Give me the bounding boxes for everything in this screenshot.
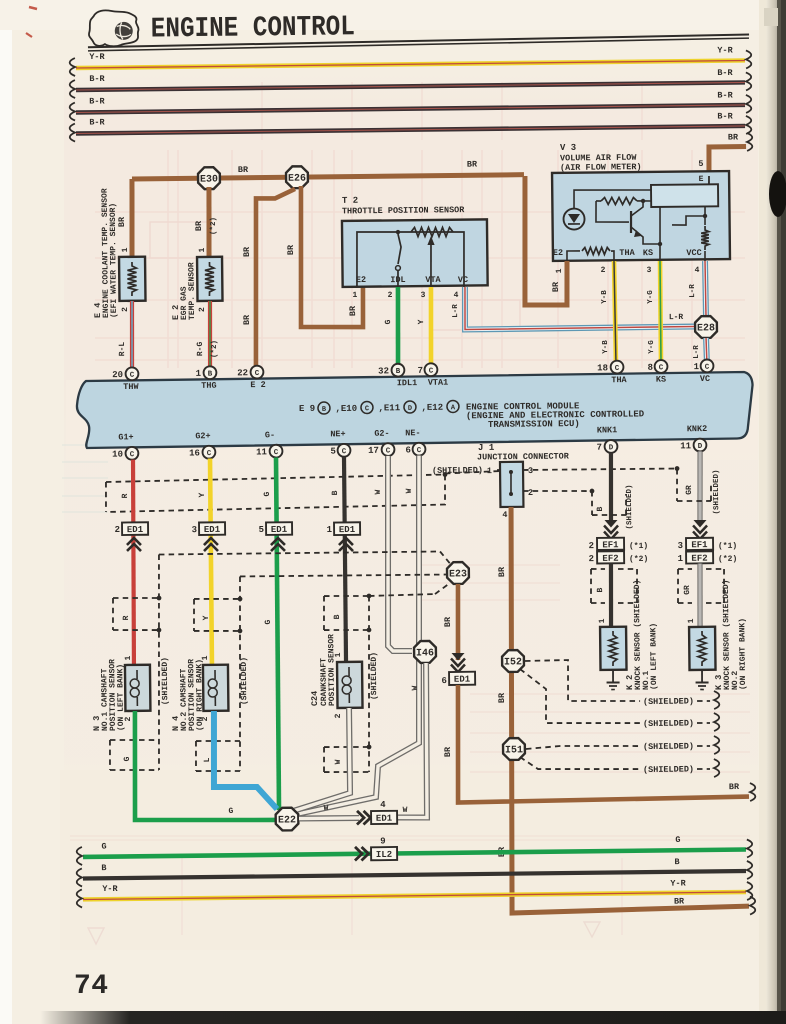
svg-text:I46: I46 (416, 648, 434, 659)
svg-text:BR: BR (497, 566, 507, 577)
connector E28 (695, 316, 717, 338)
svg-text:G: G (101, 842, 106, 852)
svg-text:Y-R: Y-R (89, 52, 105, 62)
svg-text:C: C (130, 372, 135, 380)
svg-text:(SHIELDED): (SHIELDED) (161, 657, 171, 705)
svg-text:G: G (123, 756, 132, 761)
ED1 arrow 5 on green wire (259, 522, 293, 551)
svg-text:Y-R: Y-R (717, 45, 733, 55)
EF1 EF2 boxes KNK2 (677, 537, 737, 564)
V3 pin numbers (555, 265, 700, 277)
wire W I46 down to ED1 4 (395, 663, 427, 818)
terminal NE+ 5(C) (330, 429, 350, 457)
svg-text:THA: THA (619, 248, 635, 258)
bus B-R 3 (70, 110, 752, 141)
ED1 arrow 6 on brown wire (441, 653, 475, 686)
svg-text:2: 2 (115, 525, 121, 535)
wire R-G E2 to THG (196, 301, 220, 368)
svg-text:ED1: ED1 (127, 525, 144, 535)
wire BR J1 pin4 down (493, 504, 749, 913)
V3 vcc resistor (672, 207, 709, 261)
svg-text:L-R: L-R (689, 284, 697, 298)
wire B NE+ to C24 (344, 457, 346, 662)
wire W G2- to I46 (386, 456, 412, 652)
wire BR E30 down to E2 sensor (194, 187, 219, 256)
svg-text:(*2): (*2) (629, 555, 648, 564)
J1 pin2 dashed to KNK1 shield (523, 489, 594, 495)
svg-text:1: 1 (678, 554, 684, 564)
svg-text:5: 5 (259, 525, 265, 535)
svg-text:BR: BR (674, 896, 685, 906)
svg-text:W: W (411, 685, 420, 690)
svg-text:1: 1 (687, 618, 696, 623)
connector I51 (503, 738, 525, 760)
T2 internal switch and potentiometer (355, 227, 468, 288)
bus B bottom (77, 856, 753, 887)
ED1 arrow 4 on white wire (357, 800, 408, 825)
sensor E2 EGR gas temp sensor (170, 247, 222, 320)
svg-text:B-R: B-R (89, 117, 105, 127)
ECU band engine control module (77, 372, 753, 448)
svg-text:B-R: B-R (89, 96, 105, 106)
svg-text:E30: E30 (200, 174, 218, 185)
wire BR E23 down to ED1 6 (443, 584, 459, 660)
svg-text:G2+: G2+ (195, 431, 210, 441)
svg-text:1: 1 (353, 291, 358, 300)
svg-text:BR: BR (117, 216, 127, 227)
wire BR ED1 6 down and right to edge (442, 682, 755, 805)
svg-text:32: 32 (378, 366, 389, 376)
svg-text:B-R: B-R (717, 111, 733, 121)
svg-text:6: 6 (405, 445, 411, 455)
svg-text:VTA1: VTA1 (428, 378, 449, 388)
svg-text:1: 1 (598, 618, 607, 623)
terminal VTA1 7(C) (417, 363, 448, 388)
bus B-R 2 (70, 89, 752, 120)
svg-text:KS: KS (656, 375, 666, 385)
svg-text:NE-: NE- (405, 428, 420, 438)
sensor N3 no.1 camshaft position sensor (91, 655, 151, 731)
svg-text:2: 2 (388, 291, 393, 300)
svg-text:VC: VC (700, 374, 710, 384)
terminal THG 1(B) (196, 366, 217, 391)
svg-text:EF2: EF2 (602, 554, 618, 564)
svg-text:7: 7 (418, 366, 424, 376)
connector E22 (276, 808, 299, 831)
wire BR V3 E2 pin1 U-shape to bus (524, 176, 568, 306)
svg-text:(SHIELDED): (SHIELDED) (432, 465, 483, 476)
svg-text:6: 6 (441, 676, 447, 686)
sensor C24 crankshaft position sensor (309, 634, 362, 719)
svg-text:C: C (255, 370, 260, 378)
svg-text:ED1: ED1 (376, 814, 393, 824)
svg-text:(*2): (*2) (718, 555, 737, 564)
shielded dashed line 2 from I52 (520, 667, 719, 733)
junction connector J1 (477, 442, 571, 520)
svg-text:BR: BR (443, 746, 453, 757)
svg-text:Y-B: Y-B (602, 340, 610, 354)
wire B EF2 to K2 (610, 564, 611, 627)
V3 internal amplifier block (651, 175, 718, 207)
svg-text:IDL1: IDL1 (397, 378, 418, 388)
svg-text:V 3: V 3 (560, 143, 576, 153)
ED1 arrow 1 on black wire (327, 522, 361, 551)
svg-text:BR: BR (728, 132, 739, 142)
svg-text:ED1: ED1 (204, 525, 221, 535)
terminal G2- 17(C) (368, 429, 395, 457)
terminal E2 22(C) (237, 366, 266, 391)
ground K3 (695, 670, 708, 690)
bus Y-R top (70, 45, 752, 76)
svg-text:20: 20 (112, 370, 123, 380)
svg-text:Y-G: Y-G (648, 340, 656, 354)
svg-text:THG: THG (201, 381, 216, 391)
knock sensor K3 (687, 579, 748, 690)
KNK2 small shield dashed box (677, 469, 722, 515)
terminal KS 8(C) (647, 360, 667, 385)
svg-text:L-R: L-R (669, 313, 684, 322)
svg-text:G: G (675, 835, 680, 845)
J1 shielded label and dashes to pin1 (432, 465, 500, 476)
svg-text:1: 1 (693, 362, 699, 372)
svg-text:(*1): (*1) (718, 542, 737, 551)
ED1 arrow 3 on yellow wire (191, 522, 225, 551)
svg-text:C: C (615, 365, 620, 373)
svg-text:G2-: G2- (374, 429, 389, 439)
svg-text:2: 2 (198, 307, 207, 312)
svg-text:KNK2: KNK2 (687, 424, 708, 434)
svg-text:E28: E28 (697, 323, 715, 334)
svg-text:BR: BR (238, 165, 249, 175)
wire BR bus E4/E30/E26 horizontal (132, 159, 524, 179)
svg-text:C24: C24 (310, 691, 320, 706)
svg-text:4: 4 (695, 266, 700, 275)
svg-text:3: 3 (678, 541, 684, 551)
svg-text:G-: G- (265, 430, 275, 440)
svg-text:(ON LEFT BANK): (ON LEFT BANK) (649, 623, 659, 690)
svg-text:2: 2 (121, 307, 130, 312)
svg-text:(SHIELDED): (SHIELDED) (370, 652, 380, 700)
V3 intake temp resistor E2-THA (553, 246, 702, 261)
svg-text:G: G (384, 319, 393, 324)
svg-text:C: C (274, 449, 279, 457)
svg-text:THW: THW (123, 382, 139, 392)
svg-text:,E10: ,E10 (335, 404, 357, 414)
wire R-L E4 to THW (118, 301, 133, 368)
svg-text:R-L: R-L (118, 342, 127, 357)
svg-text:1: 1 (121, 247, 130, 252)
svg-text:BR: BR (194, 220, 204, 231)
svg-text:POSITION SENSOR: POSITION SENSOR (327, 634, 337, 706)
svg-text:TEMP. SENSOR: TEMP. SENSOR (187, 262, 197, 320)
EF1 EF2 boxes KNK1 (588, 537, 648, 564)
svg-text:(SHIELDED): (SHIELDED) (643, 741, 694, 752)
svg-text:4: 4 (454, 291, 459, 300)
sensor N4 no.2 camshaft position sensor (170, 655, 229, 731)
svg-text:(*1): (*1) (629, 542, 648, 551)
wire L-R V3 VCC to E28 (689, 261, 706, 316)
svg-text:B: B (208, 371, 213, 379)
svg-text:(ON LEFT BANK): (ON LEFT BANK) (116, 664, 126, 731)
svg-text:1: 1 (196, 369, 202, 379)
connector E23 (447, 562, 469, 584)
svg-text:B-R: B-R (717, 68, 733, 78)
svg-text:(*2): (*2) (211, 340, 219, 358)
svg-text:E 9: E 9 (299, 404, 315, 414)
T2 pin numbers (353, 290, 459, 301)
svg-text:4: 4 (380, 800, 386, 810)
svg-text:BR: BR (443, 616, 453, 627)
wire L-R T2 VC to E28 (452, 285, 694, 330)
svg-text:B: B (596, 506, 605, 511)
svg-text:ED1: ED1 (454, 675, 471, 685)
terminal NE- 6(C) (405, 428, 425, 456)
svg-text:KNK1: KNK1 (597, 425, 618, 435)
svg-text:B: B (396, 368, 401, 376)
svg-text:C: C (207, 450, 212, 458)
wire R G1+ to N3 (132, 460, 136, 665)
svg-text:B-R: B-R (717, 90, 733, 100)
svg-text:E2: E2 (356, 275, 366, 285)
terminal G- 11(C) (256, 430, 283, 458)
svg-text:3: 3 (421, 291, 426, 300)
svg-text:BR: BR (348, 305, 358, 316)
wire Y G2+ to N4 (210, 458, 213, 664)
svg-text:1: 1 (198, 247, 207, 252)
svg-text:C: C (417, 447, 422, 455)
svg-text:B: B (101, 863, 106, 873)
svg-text:(*2): (*2) (210, 217, 218, 235)
svg-text:Y: Y (198, 492, 207, 497)
wire G T2 IDL to IDL1 (384, 287, 399, 366)
shield dashes N3 column (108, 551, 455, 770)
svg-text:GR: GR (683, 585, 692, 595)
svg-text:2: 2 (589, 554, 595, 564)
svg-text:BR: BR (242, 246, 252, 257)
svg-text:G: G (263, 491, 272, 496)
sensor E4 engine coolant temp sensor (92, 188, 146, 318)
svg-text:,E12: ,E12 (421, 403, 443, 413)
bus Y-R bottom (77, 877, 753, 908)
svg-text:E: E (699, 175, 704, 184)
svg-text:KS: KS (643, 248, 653, 258)
J1 pin3 dashed to KNK2 shield (523, 466, 679, 472)
svg-text:Y-R: Y-R (670, 878, 686, 888)
IL2 arrow 9 on green bus (355, 836, 397, 860)
wire W C24 to E22 (289, 708, 350, 812)
svg-text:C: C (130, 451, 135, 459)
connector I52 (502, 650, 524, 672)
wire Y-G V3 KS to ECU (647, 261, 662, 366)
svg-text:1: 1 (327, 525, 333, 535)
svg-text:ENGINE CONTROL: ENGINE CONTROL (151, 10, 355, 45)
svg-text:(SHIELDED): (SHIELDED) (626, 484, 634, 529)
terminal G1+ 10(C) (112, 432, 139, 460)
svg-text:W: W (334, 759, 343, 764)
svg-text:Y-G: Y-G (647, 290, 655, 304)
engine icon (89, 10, 139, 46)
svg-text:BR: BR (497, 692, 507, 703)
wire G N3 to E22 (134, 709, 276, 821)
svg-text:(SHIELDED): (SHIELDED) (240, 657, 250, 705)
wire L-R E28 to ECU VC (693, 338, 707, 366)
sensor T2 throttle position sensor (342, 194, 488, 287)
knock sensor K2 (598, 579, 659, 690)
page number 74 (74, 971, 109, 1002)
svg-text:E22: E22 (278, 815, 296, 826)
connector E26 (286, 166, 308, 188)
terminal G2+ 16(C) (189, 431, 216, 459)
svg-text:2: 2 (589, 541, 595, 551)
svg-text:22: 22 (237, 368, 248, 378)
bus B-R 1 (70, 67, 752, 98)
svg-text:(EFI WATER TEMP. SENSOR): (EFI WATER TEMP. SENSOR) (109, 203, 119, 318)
svg-text:2: 2 (601, 266, 606, 275)
svg-text:11: 11 (680, 441, 692, 451)
svg-text:B: B (333, 614, 342, 619)
svg-text:E23: E23 (449, 569, 467, 580)
V3 photo diode (563, 189, 651, 229)
svg-text:5: 5 (330, 447, 336, 457)
ED1 arrow 2 on red wire (114, 522, 148, 551)
svg-text:,E11: ,E11 (378, 403, 400, 413)
terminal KNK1 7(D) (596, 425, 617, 453)
wire GR KNK2 down (685, 451, 701, 520)
svg-text:18: 18 (597, 363, 608, 373)
meter V3 volume air flow box (552, 141, 730, 261)
svg-text:C: C (429, 368, 434, 376)
svg-text:3: 3 (192, 525, 198, 535)
svg-text:(ON RIGHT BANK): (ON RIGHT BANK) (195, 659, 205, 731)
svg-text:Y-R: Y-R (102, 884, 118, 894)
svg-text:2: 2 (528, 488, 533, 498)
svg-text:1: 1 (124, 655, 133, 660)
svg-text:16: 16 (189, 448, 200, 458)
svg-text:D: D (609, 444, 614, 452)
wire GR EF2 to K3 (699, 563, 700, 626)
terminal IDL1 32(B) (378, 364, 417, 389)
svg-text:(SHIELDED): (SHIELDED) (643, 764, 694, 775)
svg-text:W: W (405, 488, 414, 493)
wire BR E26 to ECU E2 terminal (241, 189, 297, 369)
svg-text:TRANSMISSION ECU): TRANSMISSION ECU) (488, 419, 580, 430)
shield dashes N4 column (193, 574, 448, 771)
svg-text:Y: Y (417, 319, 426, 324)
terminal KNK2 11(D) (680, 424, 708, 452)
connector I46 (414, 641, 436, 663)
V3 internal resistor and transistor (596, 197, 663, 262)
svg-text:17: 17 (368, 446, 379, 456)
svg-text:10: 10 (112, 450, 123, 460)
svg-text:EF1: EF1 (691, 540, 708, 550)
wire G G- to E22 (262, 457, 280, 810)
svg-text:W: W (374, 489, 383, 494)
svg-text:D: D (698, 443, 703, 451)
connector E30 (198, 167, 220, 189)
svg-text:W: W (403, 806, 408, 815)
terminal THW 20(C) (112, 367, 139, 392)
svg-text:NE+: NE+ (330, 429, 345, 439)
svg-text:74: 74 (74, 971, 109, 1002)
ECU module text (299, 398, 645, 432)
svg-text:IDL: IDL (390, 275, 405, 285)
wire B KNK1 down (610, 453, 611, 520)
svg-text:Y-B: Y-B (601, 290, 609, 304)
wire BR down to E4 (116, 179, 132, 256)
svg-text:R: R (122, 615, 131, 620)
svg-text:VCC: VCC (686, 248, 701, 258)
svg-text:C: C (705, 364, 710, 372)
svg-text:BR: BR (242, 314, 252, 325)
svg-text:3: 3 (647, 266, 652, 275)
wire W NE- to E22 (289, 456, 423, 815)
ground K2 (606, 670, 619, 690)
svg-text:D: D (408, 405, 412, 413)
svg-text:L-R: L-R (452, 304, 460, 318)
svg-text:L-R: L-R (693, 345, 701, 359)
svg-text:B: B (596, 587, 605, 592)
svg-text:THROTTLE POSITION SENSOR: THROTTLE POSITION SENSOR (342, 205, 465, 216)
shield dashes C24 column (322, 583, 452, 772)
shielded dashed line 4 from I51 (520, 755, 719, 779)
bus G bottom with IL2 (77, 834, 753, 865)
svg-text:VTA: VTA (425, 275, 441, 285)
svg-text:E2: E2 (553, 248, 563, 258)
bus BR bottom right (674, 896, 755, 916)
svg-text:I51: I51 (505, 745, 523, 756)
svg-text:E 2: E 2 (250, 380, 265, 390)
shielded dashed line 1 from I52 (525, 658, 719, 711)
terminal THA 18(C) (597, 361, 628, 386)
wire Y-B V3 THA to ECU (601, 261, 616, 366)
svg-text:W: W (324, 804, 329, 813)
svg-text:C: C (386, 447, 391, 455)
svg-text:C: C (365, 405, 369, 413)
svg-text:IL2: IL2 (376, 850, 392, 860)
shield dashed box under ECU (106, 472, 448, 512)
terminal VC 1(C) (693, 359, 713, 384)
svg-text:(SHIELDED): (SHIELDED) (713, 469, 721, 514)
svg-text:3: 3 (528, 466, 533, 476)
title ENGINE CONTROL (151, 10, 355, 45)
svg-text:11: 11 (256, 447, 268, 457)
svg-text:B-R: B-R (89, 74, 105, 84)
wire W E22 to ED1 4 (299, 804, 359, 819)
svg-text:C: C (342, 448, 347, 456)
svg-text:T 2: T 2 (342, 196, 358, 206)
svg-text:R: R (121, 493, 130, 498)
svg-text:8: 8 (647, 363, 653, 373)
svg-text:5: 5 (698, 159, 703, 169)
svg-text:9: 9 (380, 836, 386, 846)
svg-text:BR: BR (467, 159, 478, 169)
svg-text:ED1: ED1 (339, 525, 356, 535)
svg-text:R-G: R-G (196, 342, 205, 357)
KNK1 arrow down (604, 520, 618, 539)
svg-text:(SHIELDED): (SHIELDED) (643, 718, 694, 729)
KNK2 mid shield dashed box (678, 569, 725, 604)
svg-text:VC: VC (458, 275, 468, 285)
shielded dashed line 3 from I51 (526, 736, 720, 756)
svg-text:1: 1 (555, 268, 564, 273)
wire BR E26 down to T2 E2 pin (285, 185, 363, 328)
svg-text:(ON RIGHT BANK): (ON RIGHT BANK) (738, 618, 748, 690)
svg-text:GR: GR (685, 485, 694, 495)
svg-text:THA: THA (611, 375, 627, 385)
svg-text:I52: I52 (504, 657, 522, 668)
svg-text:7: 7 (597, 443, 603, 453)
svg-text:ED1: ED1 (271, 525, 288, 535)
